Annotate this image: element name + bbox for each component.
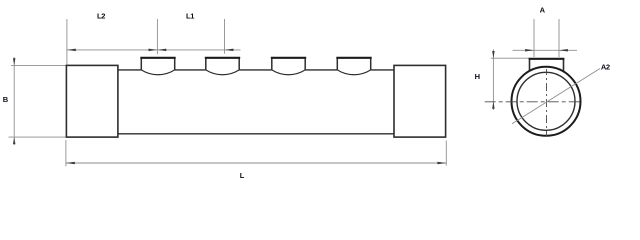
leader A2 — [512, 69, 600, 124]
body top line segments — [118, 69, 394, 71]
extension line left (x=66.9) — [66, 19, 68, 65]
arrow L left — [66, 162, 75, 165]
svg-text:L1: L1 — [186, 12, 194, 21]
body bottom line — [118, 133, 394, 135]
svg-text:L: L — [240, 171, 245, 180]
port 1 sides — [140, 58, 142, 70]
inner circle (bore) — [517, 72, 575, 130]
port 2 top — [205, 57, 240, 59]
dimension L — [66, 140, 446, 166]
right flange — [394, 65, 446, 137]
left flange — [66, 65, 118, 137]
arrow A right (outside, pointing left) — [559, 49, 568, 52]
dimension B — [9, 57, 67, 145]
arrow L2 right — [149, 49, 158, 52]
arrow B bottom (outside, pointing up) — [13, 137, 16, 144]
port 1 top — [140, 57, 175, 59]
dimension H — [491, 49, 530, 110]
port 3 top — [271, 57, 306, 59]
extension line L left — [65, 140, 67, 166]
svg-text:A2: A2 — [601, 63, 610, 72]
horizontal centerline — [485, 101, 580, 103]
arrow L right — [437, 162, 446, 165]
outer circle (body OD) — [512, 67, 581, 136]
svg-text:A: A — [540, 6, 546, 15]
vertical centerline — [546, 69, 548, 136]
dimension L2/L1 chain: dimension line — [67, 19, 241, 65]
arrow H bottom (outside, pointing up) — [492, 102, 495, 109]
svg-text:B: B — [3, 95, 9, 104]
extension line B top (y=65.4) — [11, 64, 66, 66]
end-view port stub sides — [529, 59, 531, 72]
svg-text:L2: L2 — [97, 12, 105, 21]
arrow H top (outside, pointing down) — [492, 51, 495, 58]
extension line B bottom (y=137.1) — [9, 136, 67, 138]
extension line L right — [445, 141, 447, 166]
arrow L2 left — [67, 49, 76, 52]
port 4 sides — [336, 58, 338, 70]
extension line H top (stub top level) — [491, 57, 530, 59]
port 4 top — [336, 57, 371, 59]
port 2 saddle arc — [206, 70, 239, 75]
end-view port stub top — [529, 58, 565, 60]
port 1 saddle arc — [141, 70, 174, 75]
extension line middle (x=157.4) — [156, 19, 158, 54]
arrow A left (outside, pointing right) — [525, 49, 534, 52]
arrow B top (outside, pointing down) — [13, 58, 16, 65]
port 3 sides — [271, 58, 273, 70]
extension line A right — [558, 19, 560, 57]
arrow L1 right (outside) — [225, 49, 234, 52]
arrow L1 left — [157, 49, 166, 52]
port 3 saddle arc — [272, 70, 305, 75]
port 2 sides — [205, 58, 207, 70]
dimension A — [513, 19, 578, 57]
extension line A left — [533, 19, 535, 57]
svg-text:H: H — [475, 72, 480, 81]
port 4 saddle arc — [337, 70, 370, 75]
extension line right (x=224.5) — [224, 19, 226, 54]
